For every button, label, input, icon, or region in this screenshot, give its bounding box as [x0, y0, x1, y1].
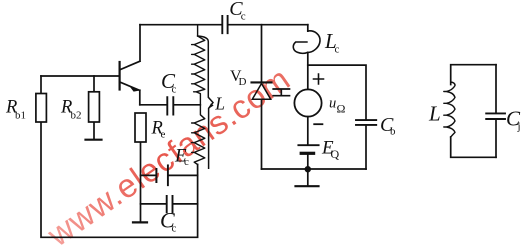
svg-text:Q: Q	[331, 147, 340, 161]
svg-text:u: u	[329, 95, 336, 111]
svg-text:c: c	[335, 44, 340, 56]
svg-text:c: c	[172, 223, 177, 235]
svg-text:b: b	[390, 126, 396, 138]
svg-text:j: j	[517, 121, 521, 133]
svg-text:c: c	[184, 156, 189, 168]
svg-text:c: c	[241, 10, 246, 22]
svg-text:D: D	[239, 76, 247, 88]
svg-text:b2: b2	[71, 110, 82, 122]
svg-text:Ω: Ω	[337, 102, 346, 116]
svg-text:b1: b1	[15, 110, 26, 122]
svg-text:e: e	[161, 129, 166, 141]
svg-text:L: L	[214, 94, 225, 114]
svg-text:L: L	[428, 102, 441, 126]
svg-text:c: c	[172, 84, 177, 96]
